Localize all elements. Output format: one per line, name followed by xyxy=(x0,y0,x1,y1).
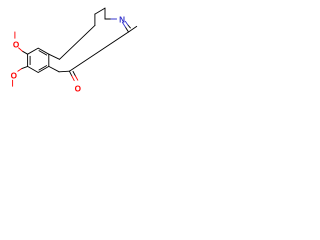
methyl line bottom OMe xyxy=(12,80,14,86)
red half bond O bottom to C4 xyxy=(18,69,22,72)
blue half bond to N xyxy=(111,18,117,20)
bond F-E xyxy=(129,26,137,32)
long lower diagonal Ccarb-F xyxy=(69,32,128,71)
bond A-B vertical xyxy=(94,14,96,25)
N=E double bond blue xyxy=(122,22,125,27)
aromatic inner line C5-C6 xyxy=(39,66,47,70)
bond C4-O bottom (black half) xyxy=(22,66,28,68)
bond X-Ccarb xyxy=(59,70,69,73)
bond C3-O top (black half) xyxy=(22,51,27,54)
methyl line top OMe xyxy=(14,32,16,38)
svg-text:O: O xyxy=(13,41,20,50)
svg-text:N: N xyxy=(119,15,125,24)
bond C6-X xyxy=(49,66,59,71)
bond B-apex xyxy=(95,8,105,14)
svg-text:O: O xyxy=(75,84,82,93)
benzene ring xyxy=(28,48,49,72)
C=N black far halves xyxy=(126,27,129,32)
C=O black halves xyxy=(69,71,71,76)
aromatic inner line C3-C4 xyxy=(29,56,31,64)
C=O red halves xyxy=(72,76,74,81)
aromatic inner line C1-C2 xyxy=(39,51,47,55)
long upper diagonal G-A xyxy=(60,25,95,59)
bond D-N black half xyxy=(105,18,111,20)
bond apex-D xyxy=(104,8,106,19)
bond C1-G xyxy=(49,54,60,59)
svg-text:O: O xyxy=(11,72,18,81)
red half bond O top to C3 xyxy=(19,48,23,51)
